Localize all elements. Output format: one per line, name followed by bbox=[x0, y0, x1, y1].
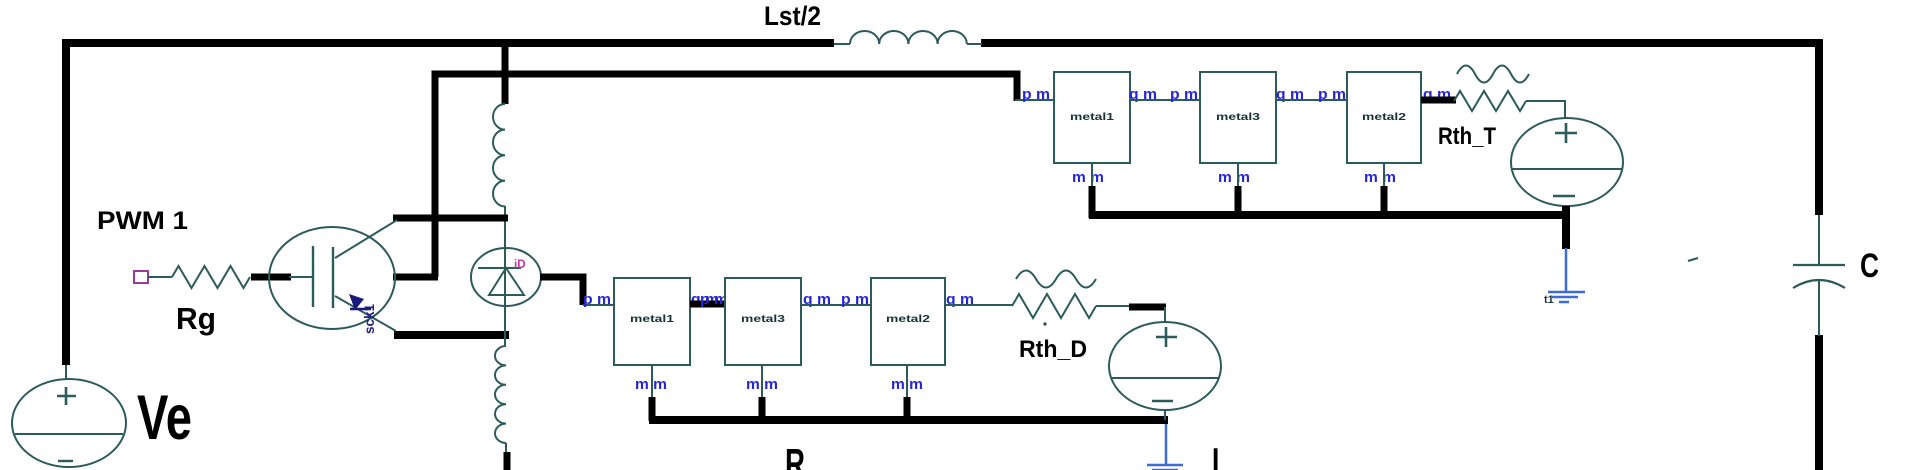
wire Rg to gate (thick stub) bbox=[251, 274, 291, 281]
svg-text:m m: m m bbox=[1364, 169, 1396, 186]
resistor Rth_D bbox=[1012, 271, 1096, 326]
svg-text:metal3: metal3 bbox=[741, 313, 785, 325]
wire Rth_T to source T bbox=[1526, 101, 1565, 119]
source Ve body bbox=[12, 365, 126, 467]
resistor Rg bbox=[172, 266, 250, 288]
wire diode to lower metal chain bbox=[540, 277, 583, 305]
stray dash mark bbox=[1688, 258, 1698, 261]
wire bottom coil tail bbox=[505, 443, 507, 453]
wire vertical x=505 from top bus to coil bbox=[502, 43, 509, 104]
svg-text:Rg: Rg bbox=[176, 301, 216, 336]
wire top thermal bus bbox=[1089, 211, 1569, 219]
svg-text:metal2: metal2 bbox=[1362, 111, 1406, 123]
wire source D bottom lead bbox=[1164, 410, 1166, 420]
svg-text:C: C bbox=[1860, 247, 1879, 285]
ground upper (blue) bbox=[1548, 248, 1585, 302]
svg-text:p m: p m bbox=[700, 291, 728, 308]
wire IGBT collector to diode node bbox=[393, 215, 508, 222]
inductor top coil (vertical, x=505) bbox=[493, 104, 505, 206]
wire bottom thermal bus bbox=[649, 416, 1168, 424]
wire source D top lead bbox=[1164, 307, 1166, 323]
svg-text:p m: p m bbox=[1170, 86, 1198, 103]
metal1 block (top) bbox=[1054, 72, 1130, 163]
svg-text:m m: m m bbox=[1218, 169, 1250, 186]
wire second bus bbox=[435, 74, 1017, 277]
svg-text:Rth_D: Rth_D bbox=[1019, 336, 1087, 363]
wire metal1-metal3 thick (bottom) bbox=[690, 301, 725, 308]
wire thin vertical diode string bbox=[504, 206, 506, 250]
svg-text:metal2: metal2 bbox=[886, 313, 930, 325]
wire bus2 corner to metal1 pin bbox=[1015, 99, 1054, 101]
wire metal3 bottom pin (bot row) bbox=[761, 365, 763, 421]
svg-text:metal1: metal1 bbox=[1070, 111, 1114, 123]
transistor Q1 IGBT body bbox=[269, 220, 397, 331]
resistor Rth_T bbox=[1454, 66, 1529, 112]
metal2 block (top) bbox=[1347, 72, 1421, 163]
svg-text:p m: p m bbox=[841, 291, 869, 308]
wire metal2 qm to Rth_T (thick stub) bbox=[1421, 97, 1456, 104]
wire metal2 bottom pin (bot row) bbox=[906, 365, 908, 421]
capacitor C bbox=[1793, 215, 1845, 336]
diode D1 body bbox=[471, 248, 541, 306]
metal3 block (top) bbox=[1200, 72, 1276, 163]
svg-text:metal1: metal1 bbox=[630, 313, 674, 325]
wire source T bottom stub bbox=[1562, 206, 1570, 249]
svg-text:metal3: metal3 bbox=[1216, 111, 1260, 123]
svg-text:R: R bbox=[785, 440, 805, 470]
wire metal1-metal3 (top) bbox=[1130, 99, 1200, 101]
wire IGBT emitter to diode bottom node bbox=[394, 331, 509, 339]
svg-text:PWM 1: PWM 1 bbox=[97, 207, 188, 235]
metal1 block (bottom) bbox=[614, 278, 690, 365]
wire metal1 bottom pin (bot row) bbox=[651, 365, 653, 421]
svg-text:m m: m m bbox=[1072, 169, 1104, 186]
svg-text:iD: iD bbox=[514, 259, 526, 271]
svg-text:p m: p m bbox=[583, 291, 611, 308]
metal2 block (bottom) bbox=[871, 278, 945, 365]
source D (thermal source lower) bbox=[1109, 322, 1221, 410]
inductor bottom coil (vertical, x=505) bbox=[495, 346, 506, 443]
wire metal2 qm to Rth_D bbox=[945, 304, 1012, 306]
wire metal1 top bottom pin bbox=[1091, 163, 1093, 218]
wire metal3-metal2 (bottom) bbox=[801, 304, 871, 306]
svg-text:p m: p m bbox=[1318, 86, 1346, 103]
wire pm to metal1 lower bbox=[583, 304, 614, 306]
wire right vertical lower (to C bottom) bbox=[1815, 335, 1823, 470]
svg-text:L: L bbox=[1212, 439, 1228, 470]
inductor Lst/2 (horizontal) bbox=[834, 31, 982, 44]
source T (thermal source upper) bbox=[1511, 118, 1623, 206]
wire port to Rg bbox=[148, 276, 172, 278]
wire metal2 top bottom pin bbox=[1383, 163, 1385, 218]
svg-text:p m: p m bbox=[1022, 86, 1050, 103]
svg-text:Ve: Ve bbox=[137, 383, 192, 453]
wire metal3-metal2 (top) bbox=[1276, 99, 1347, 101]
wire thin below diode bbox=[504, 306, 506, 346]
svg-text:Rth_T: Rth_T bbox=[1438, 123, 1496, 150]
wire top bus right segment bbox=[981, 43, 1819, 215]
ground lower (blue) bbox=[1147, 424, 1183, 470]
metal3 block (bottom) bbox=[725, 278, 801, 365]
port PWM input (purple square) bbox=[134, 271, 148, 283]
wire source D top stub (thick) bbox=[1129, 304, 1166, 311]
wire bottom stub to edge bbox=[504, 452, 511, 470]
svg-text:Lst/2: Lst/2 bbox=[764, 1, 821, 31]
wire metal3 top bottom pin bbox=[1237, 163, 1239, 218]
wire IGBT middle-right to bus drop bbox=[393, 274, 438, 281]
svg-text:t1: t1 bbox=[1544, 294, 1554, 306]
wire top bus left segment bbox=[66, 43, 834, 365]
svg-text:sck1: sck1 bbox=[362, 303, 377, 334]
wire Rth_D to source D bbox=[1096, 305, 1131, 307]
